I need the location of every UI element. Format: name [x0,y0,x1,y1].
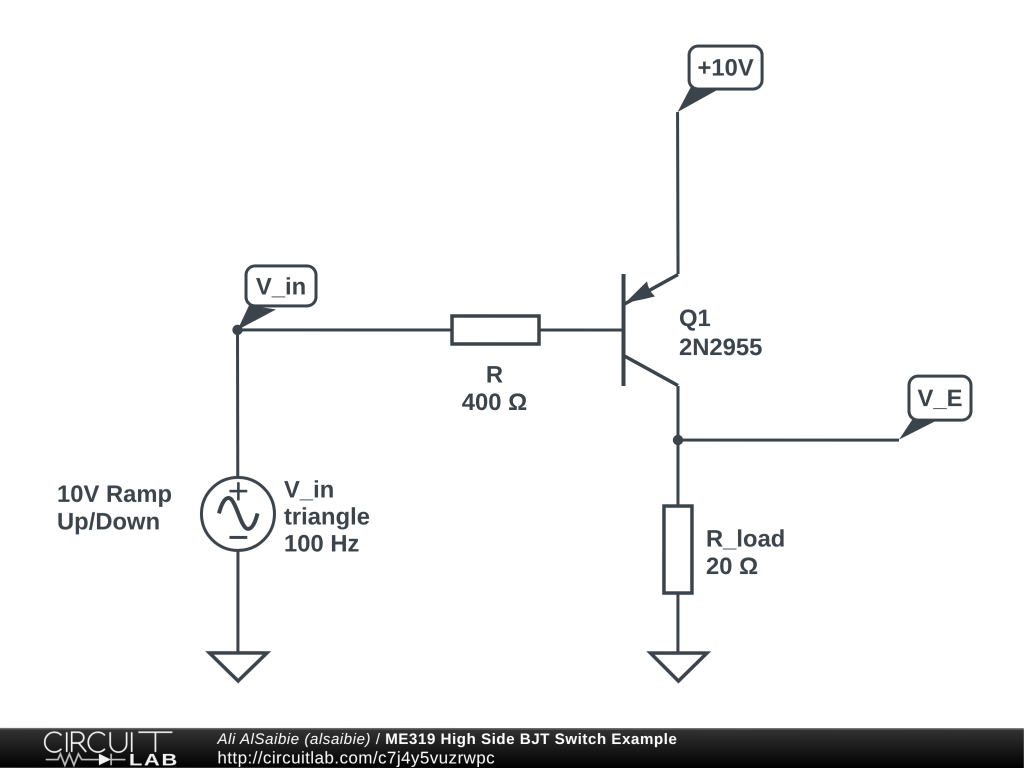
label R 400 ohm [462,361,527,416]
resistor R_load [664,506,692,593]
net flag V_in [238,266,317,330]
net flag V_E [899,376,971,440]
svg-text:400 Ω: 400 Ω [462,389,527,416]
wire Q1 base to resistor R [539,329,623,332]
wire source V1 to ground [236,551,239,653]
label Q1 2N2955 [679,305,762,361]
wire Q1 collector to node B [676,386,679,440]
CircuitLab logo diode triangle [99,754,111,766]
svg-text:Ali AlSaibie (alsaibie) / ME31: Ali AlSaibie (alsaibie) / ME319 High Sid… [216,731,677,748]
wire node B to R_load [676,440,679,506]
wire R_load to ground [676,593,679,653]
wire +10V to Q1 emitter [676,112,680,274]
node B junction dot [673,435,683,445]
svg-text:triangle: triangle [284,503,370,530]
svg-text:100 Hz: 100 Hz [284,530,360,557]
svg-text:Up/Down: Up/Down [57,508,160,535]
label 10V Ramp Up/Down [57,481,172,536]
svg-text:LAB: LAB [129,751,179,768]
svg-text:10V Ramp: 10V Ramp [57,481,172,508]
svg-text:+10V: +10V [697,55,753,82]
svg-text:20 Ω: 20 Ω [706,553,758,580]
ground GND2 [650,653,707,681]
transistor Q1 [623,274,678,386]
wire node B to V_E flag [678,439,899,442]
label R_load 20 ohm [706,525,785,580]
label V_in triangle 100 Hz [284,476,370,557]
svg-text:V_in: V_in [284,476,334,503]
footer bar [0,728,1024,768]
resistor R [452,316,539,344]
ground GND1 [209,653,267,681]
wire node A down to source V1 [236,330,239,477]
svg-text:http://circuitlab.com/c7j4y5vu: http://circuitlab.com/c7j4y5vuzrwpc [217,748,495,767]
wire node A to resistor R [238,328,452,331]
CircuitLab logo resistor-diode [46,754,126,766]
net flag +10V [678,46,763,112]
svg-text:R_load: R_load [706,525,785,552]
svg-text:R: R [486,361,503,388]
node A junction dot [232,325,242,335]
CircuitLab logo CIRCUIT [45,732,173,752]
svg-text:2N2955: 2N2955 [679,334,762,361]
voltage source V1 [201,477,274,550]
svg-text:V_E: V_E [918,385,963,412]
svg-text:Q1: Q1 [679,305,711,332]
svg-text:V_in: V_in [256,273,306,300]
